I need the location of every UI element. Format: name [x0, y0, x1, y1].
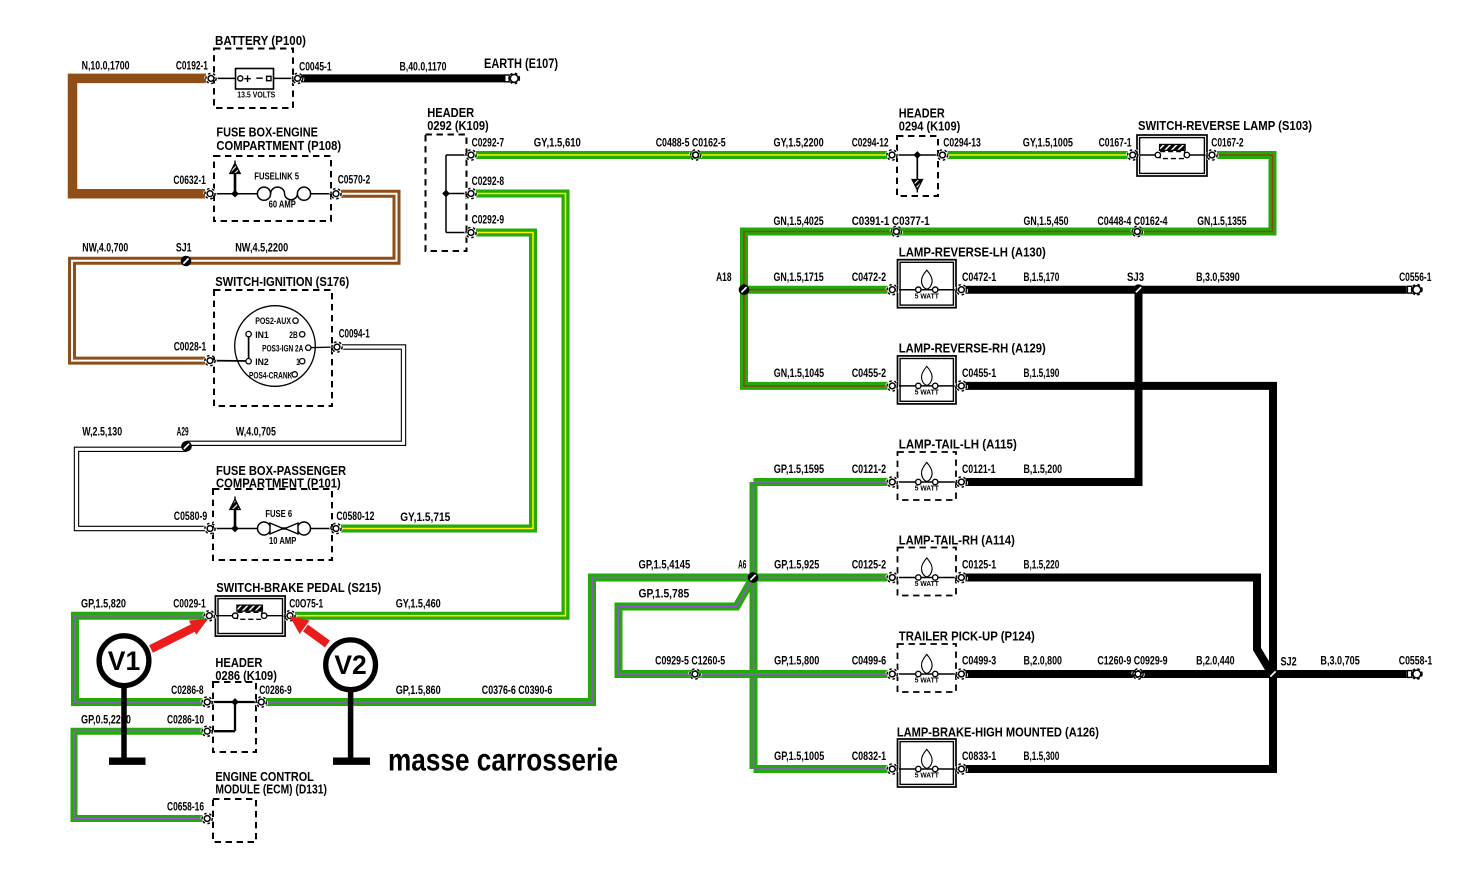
svg-text:C0292-9: C0292-9 [472, 213, 505, 227]
svg-text:GY,1.5,2200: GY,1.5,2200 [774, 136, 824, 150]
svg-text:W,2.5,130: W,2.5,130 [82, 425, 122, 439]
svg-text:POS2-AUX: POS2-AUX [255, 316, 291, 326]
svg-text:SWITCH-REVERSE LAMP (S103): SWITCH-REVERSE LAMP (S103) [1138, 118, 1312, 133]
svg-text:FUSELINK 5: FUSELINK 5 [254, 172, 299, 183]
svg-text:GP,1.5,1595: GP,1.5,1595 [774, 462, 824, 476]
svg-text:C0499-6: C0499-6 [852, 654, 887, 668]
svg-text:A29: A29 [177, 425, 189, 439]
svg-text:GP,1.5,785: GP,1.5,785 [639, 587, 690, 601]
svg-text:C0125-2: C0125-2 [852, 558, 887, 572]
svg-text:B,2.0,440: B,2.0,440 [1196, 654, 1235, 668]
svg-text:C0833-1: C0833-1 [962, 749, 996, 763]
svg-text:GY,1.5,460: GY,1.5,460 [396, 597, 441, 611]
svg-text:SJ3: SJ3 [1127, 270, 1144, 284]
svg-text:LAMP-TAIL-RH (A114): LAMP-TAIL-RH (A114) [899, 533, 1015, 548]
svg-text:GP,1.5,800: GP,1.5,800 [774, 654, 819, 668]
svg-text:GP,1.5,860: GP,1.5,860 [396, 683, 441, 697]
svg-text:COMPARTMENT (P108): COMPARTMENT (P108) [216, 138, 341, 153]
svg-text:GY,1.5,715: GY,1.5,715 [400, 510, 450, 524]
svg-text:GP,1.5,925: GP,1.5,925 [774, 558, 819, 572]
svg-text:GP,1.5,1005: GP,1.5,1005 [774, 749, 824, 763]
svg-text:SWITCH-IGNITION (S176): SWITCH-IGNITION (S176) [215, 274, 349, 289]
svg-text:B,40.0,1170: B,40.0,1170 [400, 60, 447, 74]
svg-text:B,1.5,220: B,1.5,220 [1024, 558, 1060, 572]
svg-text:FUSE 6: FUSE 6 [265, 509, 292, 520]
svg-text:POS3-IGN 2A: POS3-IGN 2A [262, 343, 303, 353]
svg-text:0292 (K109): 0292 (K109) [427, 118, 489, 133]
svg-text:0286 (K109): 0286 (K109) [215, 668, 277, 683]
svg-text:−: − [256, 71, 264, 86]
svg-text:C0488-5 C0162-5: C0488-5 C0162-5 [656, 136, 726, 150]
svg-text:C0292-7: C0292-7 [472, 136, 505, 150]
svg-text:masse carrosserie: masse carrosserie [388, 742, 618, 778]
svg-text:C0286-8: C0286-8 [171, 683, 204, 697]
svg-text:TRAILER PICK-UP (P124): TRAILER PICK-UP (P124) [899, 629, 1035, 644]
svg-text:5 WATT: 5 WATT [915, 388, 939, 397]
svg-text:BATTERY (P100): BATTERY (P100) [215, 33, 306, 48]
svg-text:C0580-12: C0580-12 [336, 509, 374, 523]
svg-text:5 WATT: 5 WATT [915, 579, 939, 588]
svg-text:GN,1.5,1355: GN,1.5,1355 [1197, 214, 1246, 228]
svg-text:C0558-1: C0558-1 [1399, 654, 1433, 668]
svg-text:0294 (K109): 0294 (K109) [899, 118, 961, 133]
svg-text:LAMP-REVERSE-LH (A130): LAMP-REVERSE-LH (A130) [899, 245, 1046, 260]
svg-text:COMPARTMENT (P101): COMPARTMENT (P101) [216, 475, 341, 490]
svg-text:C0167-2: C0167-2 [1211, 136, 1243, 150]
svg-text:C0832-1: C0832-1 [852, 749, 887, 763]
svg-text:C0632-1: C0632-1 [173, 173, 206, 187]
svg-text:SJ2: SJ2 [1281, 655, 1297, 669]
svg-text:B,3.0,5390: B,3.0,5390 [1196, 270, 1240, 284]
svg-text:V2: V2 [334, 650, 366, 680]
svg-text:C0570-2: C0570-2 [338, 173, 371, 187]
svg-text:C0294-12: C0294-12 [852, 136, 889, 150]
svg-text:C1260-9 C0929-9: C1260-9 C0929-9 [1097, 654, 1167, 668]
svg-text:C0472-1: C0472-1 [962, 270, 996, 284]
svg-text:5 WATT: 5 WATT [915, 484, 939, 493]
svg-text:MODULE (ECM) (D131): MODULE (ECM) (D131) [215, 782, 327, 797]
svg-text:NW,4.5,2200: NW,4.5,2200 [235, 241, 288, 255]
svg-text:C0376-6 C0390-6: C0376-6 C0390-6 [482, 683, 553, 697]
svg-text:W,4.0,705: W,4.0,705 [236, 425, 276, 439]
svg-text:N,10.0,1700: N,10.0,1700 [82, 59, 130, 73]
svg-text:10 AMP: 10 AMP [269, 536, 297, 547]
svg-text:GP,1.5,4145: GP,1.5,4145 [639, 558, 691, 572]
svg-text:13.5 VOLTS: 13.5 VOLTS [237, 90, 275, 100]
svg-text:C0658-16: C0658-16 [167, 800, 204, 814]
svg-text:C0286-9: C0286-9 [259, 683, 292, 697]
svg-text:A18: A18 [716, 270, 732, 284]
svg-text:5 WATT: 5 WATT [915, 291, 939, 300]
svg-text:EARTH (E107): EARTH (E107) [484, 56, 558, 71]
svg-text:C0O75-1: C0O75-1 [289, 597, 323, 611]
svg-text:C0556-1: C0556-1 [1399, 270, 1431, 284]
svg-text:C0045-1: C0045-1 [299, 60, 332, 74]
svg-text:C0167-1: C0167-1 [1099, 136, 1132, 150]
svg-text:NW,4.0,700: NW,4.0,700 [82, 241, 128, 255]
svg-text:C0125-1: C0125-1 [962, 558, 996, 572]
svg-text:C0455-1: C0455-1 [962, 366, 996, 380]
svg-text:GN,1.5,1715: GN,1.5,1715 [774, 270, 824, 284]
svg-text:C0292-8: C0292-8 [472, 174, 505, 188]
svg-text:SJ1: SJ1 [176, 241, 192, 255]
svg-text:B,1.5,200: B,1.5,200 [1024, 462, 1063, 476]
svg-text:V1: V1 [108, 646, 140, 676]
svg-text:GP,1.5,820: GP,1.5,820 [81, 597, 126, 611]
svg-text:C0391-1 C0377-1: C0391-1 C0377-1 [852, 214, 930, 228]
svg-text:LAMP-TAIL-LH (A115): LAMP-TAIL-LH (A115) [899, 437, 1017, 452]
svg-text:GN,1.5,1045: GN,1.5,1045 [774, 366, 824, 380]
svg-text:C0028-1: C0028-1 [174, 340, 207, 354]
svg-text:C0121-2: C0121-2 [852, 462, 887, 476]
svg-text:LAMP-REVERSE-RH (A129): LAMP-REVERSE-RH (A129) [899, 341, 1046, 356]
svg-text:5 WATT: 5 WATT [915, 676, 939, 685]
svg-text:C0580-9: C0580-9 [174, 509, 208, 523]
svg-text:C0929-5 C1260-5: C0929-5 C1260-5 [655, 654, 725, 668]
svg-text:C0094-1: C0094-1 [339, 327, 370, 341]
svg-text:LAMP-BRAKE-HIGH MOUNTED (A126): LAMP-BRAKE-HIGH MOUNTED (A126) [897, 725, 1099, 740]
svg-text:C0121-1: C0121-1 [962, 462, 996, 476]
svg-text:B,1.5,190: B,1.5,190 [1024, 366, 1060, 380]
svg-text:C0192-1: C0192-1 [176, 59, 208, 73]
svg-text:B,3.0,705: B,3.0,705 [1320, 654, 1360, 668]
svg-text:C0029-1: C0029-1 [173, 597, 206, 611]
svg-text:POS4-CRANK: POS4-CRANK [249, 371, 292, 381]
svg-text:60 AMP: 60 AMP [269, 200, 296, 211]
svg-text:5 WATT: 5 WATT [915, 771, 939, 780]
svg-text:B,1.5,170: B,1.5,170 [1024, 270, 1060, 284]
svg-text:GY,1.5,1005: GY,1.5,1005 [1023, 136, 1073, 150]
svg-text:+: + [244, 71, 252, 86]
svg-text:C0294-13: C0294-13 [943, 136, 981, 150]
svg-text:IN1: IN1 [255, 330, 269, 340]
svg-text:2B: 2B [289, 330, 298, 340]
svg-text:C0455-2: C0455-2 [852, 366, 887, 380]
svg-text:B,2.0,800: B,2.0,800 [1024, 654, 1063, 668]
svg-text:IN2: IN2 [255, 357, 269, 367]
svg-text:GY,1.5,610: GY,1.5,610 [534, 136, 581, 150]
svg-text:GN,1.5,4025: GN,1.5,4025 [774, 214, 824, 228]
svg-text:B,1.5,300: B,1.5,300 [1024, 749, 1060, 763]
svg-text:C0448-4 C0162-4: C0448-4 C0162-4 [1097, 214, 1167, 228]
svg-text:A6: A6 [738, 558, 746, 572]
svg-text:SWITCH-BRAKE PEDAL (S215): SWITCH-BRAKE PEDAL (S215) [216, 580, 381, 595]
svg-text:C0499-3: C0499-3 [962, 654, 996, 668]
svg-text:C0286-10: C0286-10 [167, 713, 204, 727]
svg-text:GN,1.5,450: GN,1.5,450 [1024, 214, 1069, 228]
svg-text:C0472-2: C0472-2 [852, 270, 887, 284]
